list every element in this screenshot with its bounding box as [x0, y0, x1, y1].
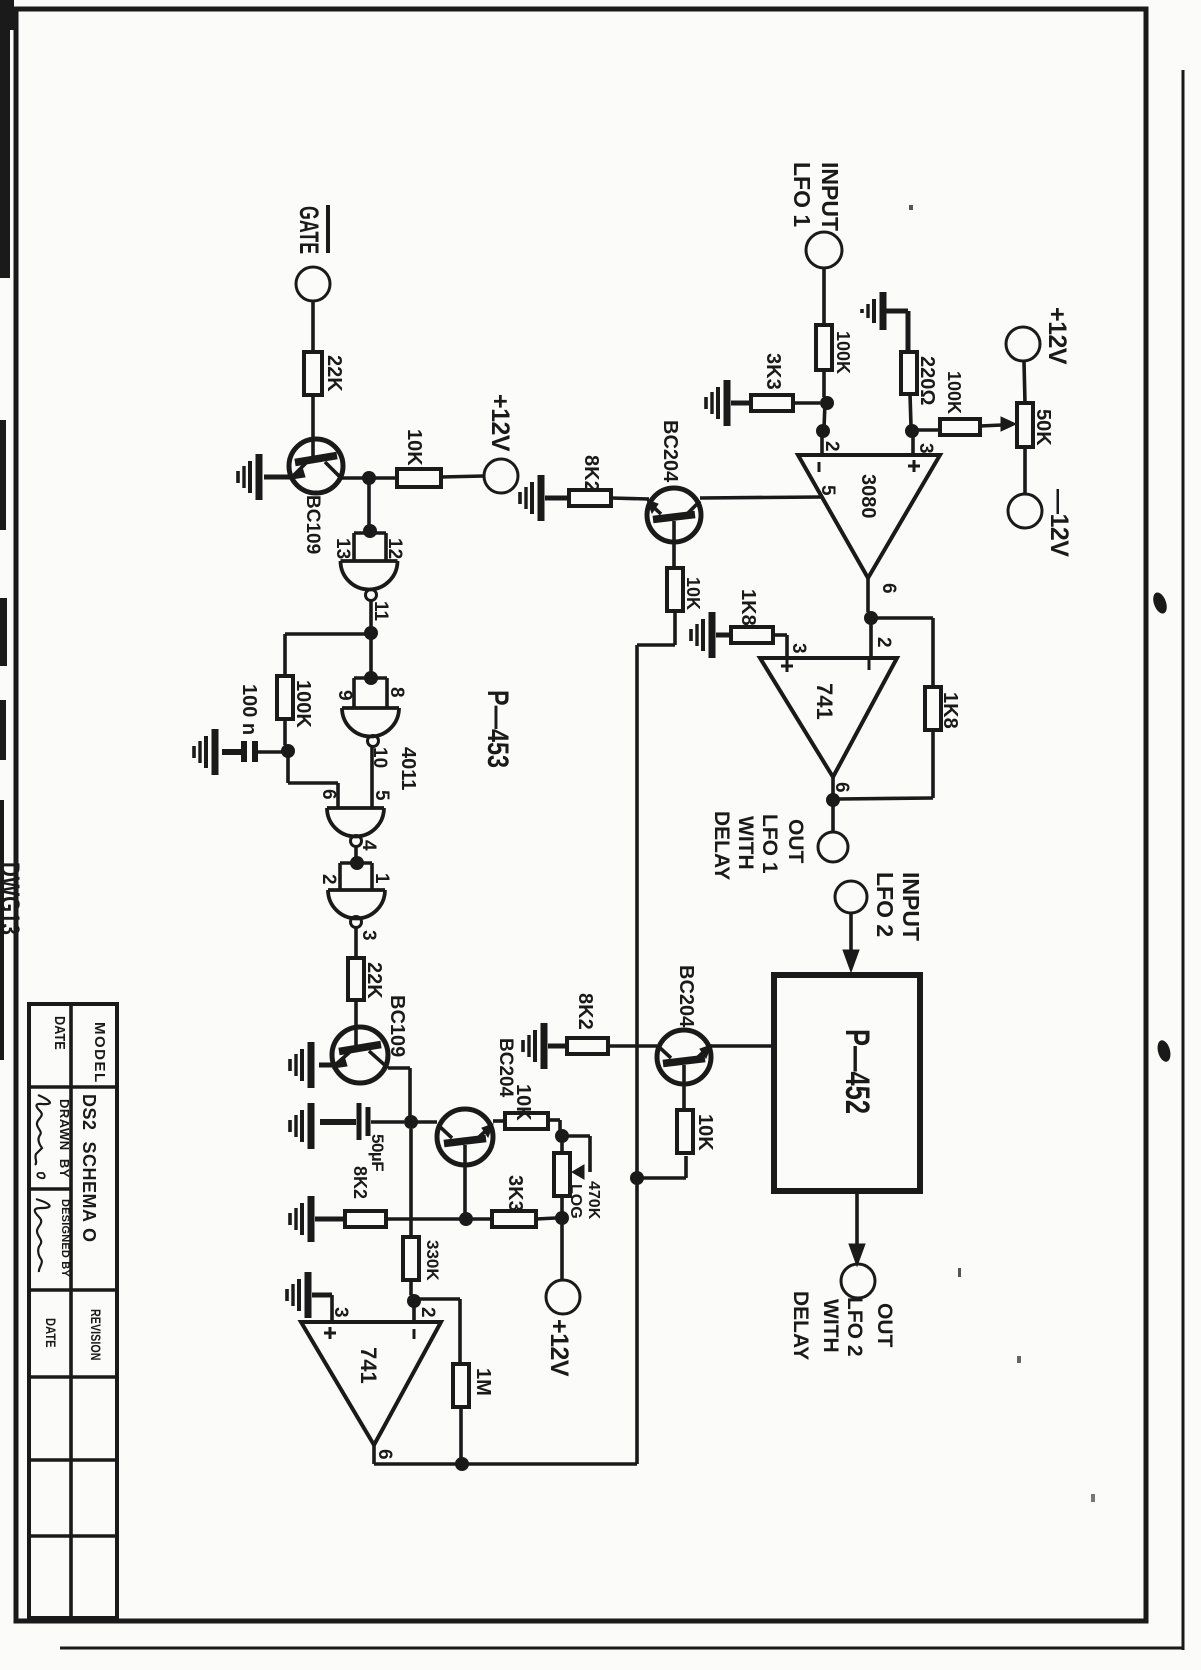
transistor BC204 T3 [437, 1109, 493, 1165]
wire BC109 T2 collector to node [388, 1066, 410, 1070]
svg-text:LFO 1: LFO 1 [789, 162, 815, 227]
svg-text:9: 9 [334, 690, 355, 701]
svg-text:8: 8 [386, 687, 407, 698]
wire 50uF node down [409, 1129, 413, 1219]
svg-text:BC204: BC204 [675, 965, 697, 1028]
G1 output bubble [366, 590, 377, 601]
label DATE [52, 1016, 69, 1050]
resistor 22K (gate) [304, 352, 322, 395]
wire P-452 out arrow [855, 1191, 859, 1250]
wire pot to +12V [1024, 362, 1025, 403]
block P-452 [774, 975, 920, 1191]
wire pot to -12V [1023, 447, 1027, 494]
wire 22K to BC109 base [311, 395, 315, 459]
node 3080 pin3 [905, 424, 919, 438]
svg-text:+12V: +12V [1043, 307, 1071, 365]
GATE overline [326, 205, 330, 253]
svg-text:10K: 10K [512, 1084, 534, 1121]
ground BC109 T2 [308, 1042, 315, 1088]
pin 3 stub 3080 [911, 431, 915, 455]
node 3080 out [864, 611, 878, 625]
wire 100K to cap node [283, 719, 287, 745]
label REVISION [88, 1309, 104, 1360]
svg-text:MODEL: MODEL [91, 1022, 108, 1084]
pin 2 stub 741(2) [412, 1301, 416, 1322]
svg-text:220Ω: 220Ω [916, 356, 938, 405]
terminal INPUT LFO2 [835, 881, 867, 913]
svg-text:100K: 100K [292, 680, 314, 728]
pin 2 stub 3080 [820, 431, 824, 455]
wire G3 out to G4 bracket [354, 847, 358, 858]
svg-text:+12V: +12V [545, 1319, 573, 1377]
wire node down to +12V terminal [560, 1218, 564, 1280]
svg-text:1M: 1M [472, 1368, 494, 1396]
svg-text:4: 4 [358, 840, 379, 851]
terminal OUT LFO1 [818, 832, 848, 862]
wire 1M to output bus [459, 1407, 463, 1459]
gate4 input bracket [340, 861, 372, 865]
resistor 100K (timing) [277, 676, 293, 719]
svg-text:WITH: WITH [734, 816, 757, 870]
nand gate G3 (4011) [327, 806, 384, 810]
resistor 10K (T3) [505, 1113, 548, 1129]
resistor 220ohm [901, 352, 917, 394]
ground 100n [212, 729, 219, 775]
resistor 100K (LFO1) [816, 325, 832, 370]
svg-text:12: 12 [384, 538, 405, 559]
svg-text:6: 6 [831, 782, 852, 793]
resistor 1K8 (feedback) [925, 687, 941, 730]
svg-text:2: 2 [873, 637, 894, 648]
wiper wire + arrow [980, 425, 1002, 426]
node 1M/output [455, 1457, 469, 1471]
gate1 input bracket [354, 531, 386, 535]
svg-text:1: 1 [371, 873, 392, 884]
svg-text:OUT: OUT [784, 819, 807, 864]
svg-text:470K: 470K [585, 1181, 602, 1220]
resistor 1M [453, 1364, 469, 1407]
minus sign 3080 [818, 462, 821, 472]
terminal +12V (1) [484, 459, 518, 493]
svg-text:8K2: 8K2 [350, 1166, 370, 1199]
wire 10K to +12V terminal [441, 476, 484, 477]
resistor 100K (pot drive) [940, 419, 980, 435]
svg-text:LOG: LOG [567, 1184, 584, 1219]
resistor 8K2 (T4) [567, 1038, 608, 1054]
svg-text:DELAY: DELAY [710, 811, 733, 880]
wire cap node to G3 input 6 [286, 751, 290, 783]
svg-text:22K: 22K [323, 355, 345, 392]
svg-text:4011: 4011 [397, 747, 419, 790]
transistor BC109 T2 [332, 1027, 388, 1083]
capacitor 100n [252, 741, 258, 762]
svg-text:3: 3 [915, 443, 936, 454]
wire 8K2 to 3K3 [386, 1217, 492, 1221]
svg-text:LFO 2: LFO 2 [843, 1297, 866, 1357]
wire node to 100K branch [285, 632, 371, 636]
svg-text:100K: 100K [833, 331, 853, 374]
wire 22K to BC109 T2 [354, 1000, 358, 1048]
svg-text:8K2: 8K2 [574, 993, 596, 1030]
wire node to 10K T4 bottom [637, 1176, 686, 1180]
svg-text:1K8: 1K8 [737, 589, 759, 626]
op-amp 741 (1) [760, 658, 897, 777]
wire node to 1M branch [414, 1297, 460, 1301]
svg-text:DATE: DATE [52, 1016, 69, 1050]
svg-text:OUT: OUT [873, 1303, 896, 1348]
svg-text:DESIGNED BY: DESIGNED BY [59, 1199, 71, 1277]
ground 3K3 (1) [724, 380, 731, 426]
plus sign 741(2) [329, 1327, 332, 1339]
node collector junction [362, 471, 376, 485]
G4 output bubble [351, 917, 362, 928]
ground 8K2 (T4) [541, 1023, 548, 1069]
minus sign 741(2) [413, 1329, 416, 1339]
ground 1K8 (pin3) [709, 612, 716, 658]
label P-453 [481, 690, 514, 768]
wire 8K2 to BC204 T5 [611, 498, 649, 499]
wire node to BC204 T3 [411, 1120, 437, 1124]
G3 output bubble [351, 836, 362, 847]
wire T4 base to 10K [682, 1065, 686, 1110]
title block vertical divider [69, 1004, 73, 1618]
op-amp 3080 [798, 455, 940, 578]
svg-text:BC109: BC109 [302, 495, 323, 554]
svg-text:BC204: BC204 [659, 420, 681, 483]
svg-text:1K8: 1K8 [939, 692, 961, 729]
svg-text:—12V: —12V [1045, 489, 1073, 557]
svg-text:DATE: DATE [43, 1318, 58, 1348]
pot wiper [562, 1134, 590, 1138]
svg-text:3: 3 [788, 643, 809, 654]
minus sign 741(1) [868, 660, 871, 670]
wire node to OUT terminal [831, 800, 835, 832]
resistor 330K [403, 1237, 419, 1280]
resistor 3K3 (2) [492, 1211, 536, 1227]
signature designed-by [35, 1199, 50, 1272]
wire T5 collector to 3080 pin5 [700, 497, 822, 498]
svg-text:2: 2 [417, 1307, 438, 1318]
title block divider revision header [29, 1375, 117, 1379]
svg-text:3K3: 3K3 [762, 353, 784, 390]
svg-text:INPUT: INPUT [898, 872, 924, 941]
ground 8K2 (T5) [538, 475, 545, 521]
wire BC109 collector to node [340, 476, 363, 480]
resistor 10K (collector) [397, 469, 441, 487]
terminal OUT LFO2 [841, 1264, 875, 1298]
node GATE label [294, 206, 325, 254]
wire node to 3080 pin2 [824, 403, 825, 428]
wire junction down to gate1 input [367, 478, 371, 526]
wire 220 to pin3 node [910, 394, 911, 426]
wire 3080 out [866, 578, 870, 612]
transistor BC109 T1 [289, 439, 343, 493]
ground 741(2) pin3 [305, 1272, 312, 1318]
resistor 3K3 (1) [751, 395, 793, 411]
nand gate G4 (4011) [328, 888, 385, 892]
svg-text:10K: 10K [403, 429, 425, 466]
svg-text:10K: 10K [683, 577, 703, 610]
node 50uF junction [404, 1115, 418, 1129]
node 3K3/pot/+12V [555, 1211, 569, 1225]
terminal +12V (2) [546, 1280, 580, 1314]
terminal INPUT LFO1 [806, 232, 842, 268]
ground 220ohm [880, 292, 887, 330]
G2 output bubble [368, 736, 379, 747]
node G1 out [364, 626, 378, 640]
svg-text:2: 2 [318, 874, 339, 885]
nand gate G2 (4011) [342, 706, 399, 710]
svg-text:3: 3 [358, 930, 379, 941]
svg-text:741: 741 [812, 683, 837, 720]
svg-text:6: 6 [374, 1449, 395, 1460]
wire 10K T5 to long feedback wire [673, 611, 677, 645]
svg-text:6: 6 [878, 583, 899, 594]
title block outer [29, 1004, 117, 1618]
signature drawn-by [35, 1095, 50, 1165]
wire T3 right to 10K [493, 1119, 505, 1123]
svg-text:100 n: 100 n [238, 684, 260, 735]
title block divider row2 [29, 1458, 117, 1462]
wire node to 10K [369, 476, 397, 480]
svg-text:741: 741 [356, 1347, 381, 1384]
svg-text:+12V: +12V [486, 394, 514, 452]
svg-text:10K: 10K [694, 1114, 716, 1151]
wire BC109 emitter to ground [264, 475, 290, 480]
wire 10K to pot node [548, 1118, 560, 1122]
node out LFO1 [826, 793, 840, 807]
svg-text:BC109: BC109 [386, 995, 408, 1057]
wire T5 base to 10K [672, 521, 676, 568]
svg-text:2: 2 [821, 441, 842, 452]
pin 6 wire 741(2) [372, 1445, 376, 1464]
wire to 100K [822, 268, 826, 325]
svg-text:50K: 50K [1032, 409, 1054, 446]
node long wire / 10K T4 [630, 1171, 644, 1185]
resistor 8K2 (lower) [345, 1211, 386, 1227]
ground 50uF [308, 1103, 315, 1149]
wire 741(2) output bus [374, 1462, 637, 1466]
wire 1K8 to output node [931, 730, 935, 798]
wire junction down to 330K [409, 1219, 413, 1237]
plus sign 3080 [913, 460, 916, 472]
node T3 base [459, 1212, 473, 1226]
svg-text:P—453: P—453 [481, 690, 514, 768]
svg-text:REVISION: REVISION [88, 1309, 104, 1360]
label DATE revision [43, 1318, 58, 1348]
ground BC109 T1 [256, 454, 263, 500]
wire 330K to 741 in- [409, 1280, 413, 1295]
capacitor 50uF [357, 1103, 362, 1140]
svg-text:DS2 SCHEMA O: DS2 SCHEMA O [79, 1094, 99, 1243]
wire T3 base down [463, 1145, 467, 1213]
wire 100K to node [822, 370, 826, 397]
nand gate G1 (4011) [341, 559, 398, 563]
svg-text:INPUT: INPUT [817, 162, 843, 231]
terminal GATE [296, 267, 330, 301]
terminal -12V [1008, 494, 1042, 528]
wire G4 out to 22K [354, 928, 358, 958]
title block divider row3 [29, 1534, 117, 1538]
svg-text:3K3: 3K3 [504, 1175, 526, 1212]
node 3K3/100K [820, 396, 834, 410]
svg-text:DRAWN BY: DRAWN BY [57, 1099, 72, 1178]
svg-text:100K: 100K [944, 371, 964, 414]
ground 8K2 lower [308, 1196, 315, 1242]
node 741(2) inverting input [407, 1294, 421, 1308]
wire G1 out to node [369, 601, 373, 627]
wire 3K3 to pot node [536, 1218, 556, 1219]
wire 3080 out to 741 pin2 [869, 618, 873, 658]
wire node to 1K8 feedback [871, 616, 933, 620]
wire node to 100K pot [912, 428, 940, 432]
pot 50K body [1017, 403, 1033, 447]
transistor BC204 T4 [657, 1030, 711, 1084]
title block divider DATE rows [29, 1187, 71, 1191]
transistor BC204 T5 [647, 488, 701, 542]
node pot top [555, 1129, 569, 1143]
op-amp 741 (2) [301, 1322, 441, 1445]
svg-text:11: 11 [370, 601, 391, 622]
long feedback wire vertical [635, 645, 639, 1464]
svg-text:330K: 330K [423, 1240, 442, 1281]
wire 8K2 to BC204 T4 [608, 1044, 657, 1048]
wire INPUT LFO2 arrow [849, 913, 853, 952]
svg-text:3: 3 [330, 1307, 351, 1318]
title block divider signatures/revision [29, 1288, 117, 1292]
wire BC109 T2 emitter to ground [319, 1063, 333, 1068]
svg-text:22K: 22K [363, 962, 385, 999]
svg-text:3080: 3080 [857, 474, 879, 519]
svg-text:8K2: 8K2 [580, 455, 602, 492]
node 3080 pin2 [816, 424, 830, 438]
wire G1 node down to G2 bracket [369, 634, 373, 673]
wire 1K8 to 741 pin3 [773, 633, 787, 637]
svg-text:6: 6 [318, 789, 339, 800]
pin 6 wire 741(1) [831, 777, 835, 794]
terminal +12V (3) [1006, 327, 1040, 361]
resistor 10K (T4) [677, 1110, 693, 1153]
label P-452 [838, 1029, 875, 1114]
svg-text:P—452: P—452 [838, 1029, 875, 1114]
gate2 input bracket [354, 676, 387, 680]
plus sign 741(1) [786, 660, 789, 672]
node cap junction [281, 744, 295, 758]
pot 470K LOG body [554, 1153, 570, 1196]
svg-text:DELAY: DELAY [789, 1291, 812, 1360]
resistor 10K (T5) [667, 568, 683, 611]
svg-text:LFO 1: LFO 1 [758, 814, 781, 874]
title block divider MODEL/DS2 [29, 1085, 117, 1089]
svg-text:GATE: GATE [294, 206, 325, 254]
svg-text:5: 5 [371, 790, 392, 801]
svg-text:WITH: WITH [819, 1299, 842, 1353]
wire gate terminal to R 22K [311, 301, 315, 352]
wire pot bottom to node [560, 1196, 564, 1212]
wire G2 out to G3 input 5 [370, 747, 374, 808]
svg-text:LFO 2: LFO 2 [872, 872, 898, 937]
wire T4 collector to P-452 [710, 1044, 774, 1048]
resistor 22K (2) [348, 958, 364, 1000]
svg-text:DWG13: DWG13 [0, 862, 25, 935]
wire 3K3 to node [793, 401, 820, 405]
svg-text:13: 13 [332, 538, 353, 559]
resistor 8K2 (T5) [569, 490, 611, 506]
resistor 1K8 (pin3) [731, 627, 773, 643]
